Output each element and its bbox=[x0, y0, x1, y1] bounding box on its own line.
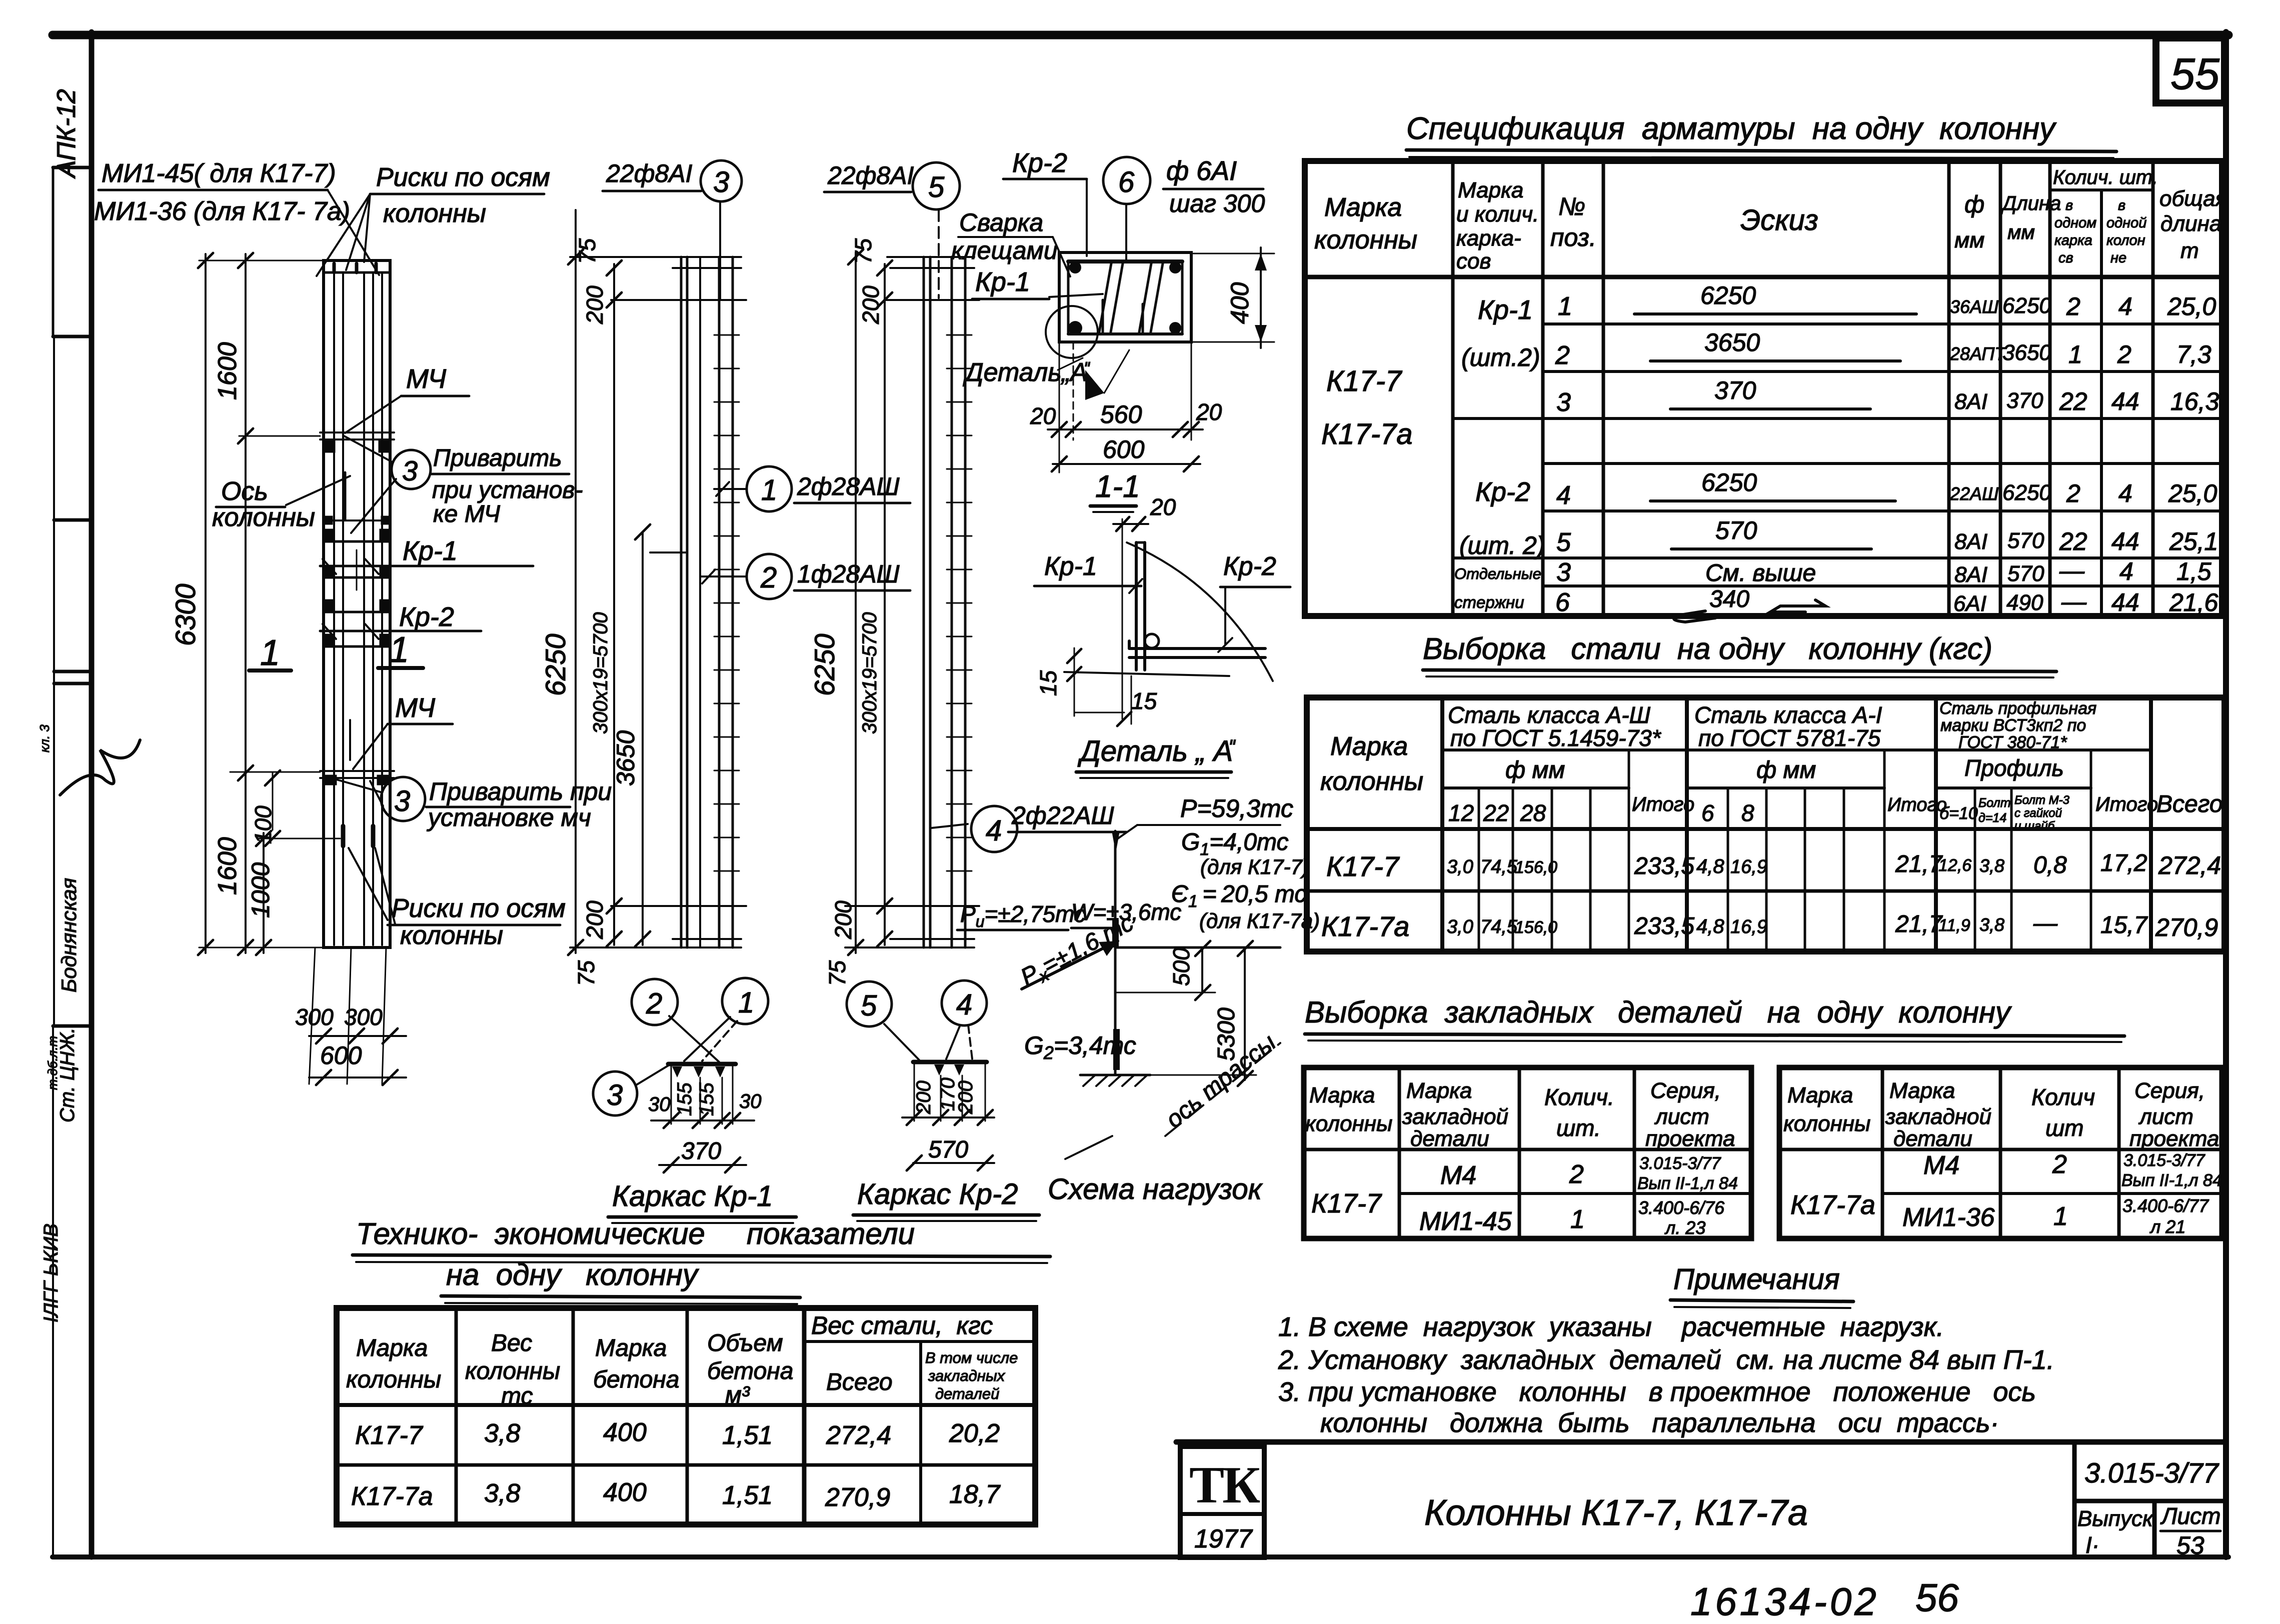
svg-text:Серия,: Серия, bbox=[2134, 1078, 2205, 1103]
svg-text:и шайб: и шайб bbox=[2014, 819, 2055, 833]
svg-text:детали: детали bbox=[1410, 1126, 1489, 1151]
svg-text:АПК-12: АПК-12 bbox=[52, 89, 81, 179]
svg-text:272,4: 272,4 bbox=[2158, 851, 2221, 879]
svg-text:Профиль: Профиль bbox=[1964, 755, 2064, 781]
svg-text:20: 20 bbox=[1030, 403, 1056, 429]
svg-text:Объем: Объем bbox=[707, 1330, 783, 1356]
svg-text:300х19=5700: 300х19=5700 bbox=[590, 612, 612, 734]
svg-text:Сварка: Сварка bbox=[959, 208, 1043, 236]
svg-text:22ф8АΙ: 22ф8АΙ bbox=[606, 159, 693, 187]
svg-text:570: 570 bbox=[928, 1136, 968, 1163]
svg-text:Деталь„А̎: Деталь„А̎ bbox=[963, 358, 1091, 387]
svg-text:Кр-1: Кр-1 bbox=[1478, 295, 1533, 325]
svg-text:лист: лист bbox=[1654, 1104, 1709, 1129]
svg-text:(для К17-7а): (для К17-7а) bbox=[1199, 909, 1320, 932]
svg-text:1,5: 1,5 bbox=[2176, 557, 2211, 585]
svg-text:закладной: закладной bbox=[1885, 1104, 1991, 1129]
svg-text:17,2: 17,2 bbox=[2100, 850, 2147, 876]
svg-text:Серия,: Серия, bbox=[1650, 1078, 1721, 1103]
svg-text:15,7: 15,7 bbox=[2100, 912, 2148, 938]
svg-text:15: 15 bbox=[1131, 688, 1157, 714]
svg-text:15: 15 bbox=[1035, 670, 1061, 696]
svg-text:Каркас Кр-2: Каркас Кр-2 bbox=[857, 1178, 1018, 1210]
svg-text:с гайкой: с гайкой bbox=[2014, 806, 2062, 820]
svg-text:Вып II-1,л 84: Вып II-1,л 84 bbox=[2121, 1171, 2222, 1190]
svg-text:К17-7: К17-7 bbox=[1326, 850, 1400, 882]
svg-text:кл. 3: кл. 3 bbox=[37, 724, 52, 752]
svg-text:1600: 1600 bbox=[213, 837, 242, 895]
svg-text:ІЛГГ ЬКИВ: ІЛГГ ЬКИВ bbox=[40, 1223, 62, 1322]
svg-text:155: 155 bbox=[696, 1082, 718, 1116]
svg-text:155: 155 bbox=[674, 1082, 696, 1116]
svg-text:К17-7а: К17-7а bbox=[351, 1482, 433, 1511]
svg-text:стержни: стержни bbox=[1454, 593, 1524, 611]
svg-text:1: 1 bbox=[738, 986, 754, 1019]
svg-text:Боднянская: Боднянская bbox=[57, 878, 81, 992]
svg-text:(для К17-7): (для К17-7) bbox=[1200, 855, 1309, 878]
svg-text:одной: одной bbox=[2106, 215, 2146, 231]
svg-text:8АI: 8АI bbox=[1954, 389, 1987, 414]
svg-text:3.015-3/77: 3.015-3/77 bbox=[2123, 1151, 2205, 1170]
svg-text:Марка: Марка bbox=[356, 1335, 428, 1361]
svg-text:4,8: 4,8 bbox=[1696, 915, 1724, 937]
svg-text:Спецификация арматуры на одн: Спецификация арматуры на одну колонну bbox=[1406, 111, 2057, 146]
svg-text:л 21: л 21 bbox=[2149, 1216, 2185, 1237]
svg-text:3: 3 bbox=[1556, 558, 1571, 587]
svg-text:5: 5 bbox=[861, 989, 877, 1022]
svg-text:74,5: 74,5 bbox=[1480, 856, 1518, 877]
svg-text:21,6: 21,6 bbox=[2169, 588, 2218, 616]
svg-text:2: 2 bbox=[760, 561, 777, 594]
svg-text:2: 2 bbox=[646, 987, 662, 1020]
svg-text:колонны: колонны bbox=[1320, 767, 1423, 796]
svg-text:л. 23: л. 23 bbox=[1664, 1217, 1705, 1238]
svg-text:600: 600 bbox=[1103, 435, 1145, 463]
svg-text:Болт М-3: Болт М-3 bbox=[2014, 793, 2070, 807]
svg-text:8АI: 8АI bbox=[1954, 562, 1987, 587]
svg-text:200: 200 bbox=[582, 285, 608, 324]
svg-text:200: 200 bbox=[955, 1080, 977, 1114]
svg-text:Кр-2: Кр-2 bbox=[399, 602, 454, 632]
svg-text:(шт. 2): (шт. 2) bbox=[1459, 531, 1545, 559]
svg-text:156,0: 156,0 bbox=[1515, 858, 1557, 877]
svg-text:Итого: Итого bbox=[1632, 793, 1694, 815]
svg-text:400: 400 bbox=[603, 1478, 647, 1507]
svg-text:Каркас Кр-1: Каркас Кр-1 bbox=[612, 1180, 773, 1212]
svg-text:Марка: Марка bbox=[1458, 178, 1523, 202]
svg-text:Риски по осям: Риски по осям bbox=[392, 894, 566, 923]
svg-text:1: 1 bbox=[2053, 1202, 2068, 1231]
svg-text:по ГОСТ 5781-75: по ГОСТ 5781-75 bbox=[1698, 725, 1881, 751]
svg-text:ф мм: ф мм bbox=[1505, 757, 1565, 783]
svg-text:шт: шт bbox=[2045, 1115, 2084, 1141]
svg-text:и колич.: и колич. bbox=[1456, 202, 1539, 226]
svg-text:д=14: д=14 bbox=[1978, 811, 2006, 825]
svg-text:карка: карка bbox=[2054, 232, 2092, 248]
svg-text:370: 370 bbox=[2006, 388, 2043, 413]
svg-text:проекта: проекта bbox=[1645, 1126, 1735, 1151]
svg-text:500: 500 bbox=[1168, 947, 1194, 986]
svg-text:8АI: 8АI bbox=[1954, 529, 1987, 554]
svg-text:21,7: 21,7 bbox=[1895, 911, 1943, 937]
svg-text:1,51: 1,51 bbox=[722, 1421, 773, 1450]
svg-text:деталей: деталей bbox=[935, 1385, 999, 1402]
svg-text:270,9: 270,9 bbox=[825, 1483, 890, 1512]
svg-text:№: № bbox=[1558, 192, 1585, 220]
svg-text:В том числе: В том числе bbox=[925, 1349, 1018, 1366]
svg-text:лист: лист bbox=[2138, 1104, 2193, 1129]
svg-text:44: 44 bbox=[2111, 527, 2139, 555]
svg-text:колонны: колонны bbox=[400, 921, 503, 950]
svg-text:1977: 1977 bbox=[1194, 1524, 1253, 1553]
svg-text:6250: 6250 bbox=[540, 633, 571, 696]
svg-text:колонны: колонны bbox=[383, 199, 486, 228]
svg-text:1: 1 bbox=[389, 630, 409, 670]
svg-text:25,0: 25,0 bbox=[2167, 292, 2216, 320]
svg-text:22: 22 bbox=[2059, 387, 2087, 415]
svg-text:5: 5 bbox=[928, 171, 945, 203]
svg-text:4: 4 bbox=[1556, 481, 1571, 510]
svg-text:св: св bbox=[2058, 250, 2073, 266]
svg-text:3,8: 3,8 bbox=[484, 1419, 520, 1448]
svg-text:проекта: проекта bbox=[2129, 1126, 2219, 1151]
svg-text:G1=4,0тс: G1=4,0тс bbox=[1181, 829, 1288, 859]
svg-text:340: 340 bbox=[1709, 586, 1749, 612]
svg-text:36АШ: 36АШ bbox=[1950, 296, 1999, 317]
svg-text:3: 3 bbox=[713, 166, 729, 198]
svg-text:1-1: 1-1 bbox=[1095, 469, 1140, 504]
svg-text:по ГОСТ 5.1459-73*: по ГОСТ 5.1459-73* bbox=[1450, 725, 1662, 751]
svg-text:установке мч: установке мч bbox=[427, 803, 591, 831]
svg-text:См. выше: См. выше bbox=[1705, 560, 1816, 586]
svg-text:ТК: ТК bbox=[1189, 1455, 1260, 1514]
svg-text:т.дб.л.т: т.дб.л.т bbox=[45, 1036, 60, 1090]
svg-text:3650: 3650 bbox=[612, 730, 640, 786]
svg-text:75: 75 bbox=[824, 960, 850, 986]
svg-text:в: в bbox=[2118, 197, 2125, 213]
svg-text:МИ1-36: МИ1-36 bbox=[1902, 1203, 1995, 1232]
svg-text:16134-02: 16134-02 bbox=[1690, 1579, 1879, 1623]
svg-text:4: 4 bbox=[2119, 557, 2133, 585]
svg-text:К17-7а: К17-7а bbox=[1790, 1190, 1875, 1220]
svg-text:6: 6 bbox=[1118, 166, 1135, 198]
svg-text:3. при установке колонны в: 3. при установке колонны в проектное пол… bbox=[1278, 1377, 2036, 1407]
svg-text:1600: 1600 bbox=[213, 342, 242, 400]
svg-text:12,6: 12,6 bbox=[1938, 856, 1971, 875]
svg-text:Сталь профильная: Сталь профильная bbox=[1939, 699, 2096, 718]
svg-text:Марка: Марка bbox=[1309, 1083, 1375, 1107]
svg-text:44: 44 bbox=[2111, 387, 2139, 415]
svg-text:44: 44 bbox=[2111, 588, 2139, 616]
svg-text:16,9: 16,9 bbox=[1730, 856, 1767, 877]
svg-text:детали: детали bbox=[1893, 1126, 1972, 1151]
svg-text:1: 1 bbox=[1558, 292, 1572, 321]
svg-text:Вес стали, кгс: Вес стали, кгс bbox=[811, 1311, 993, 1339]
svg-text:370: 370 bbox=[681, 1138, 721, 1164]
svg-text:53: 53 bbox=[2176, 1531, 2204, 1559]
svg-text:Примечания: Примечания bbox=[1673, 1263, 1840, 1295]
svg-text:370: 370 bbox=[1714, 376, 1756, 404]
svg-text:Деталь „ А̎: Деталь „ А̎ bbox=[1077, 735, 1236, 767]
svg-text:Колич: Колич bbox=[2031, 1084, 2095, 1110]
svg-text:200: 200 bbox=[858, 285, 884, 324]
svg-text:3: 3 bbox=[402, 455, 418, 486]
svg-text:6250: 6250 bbox=[809, 633, 840, 696]
svg-text:Всего: Всего bbox=[826, 1369, 893, 1395]
svg-text:—: — bbox=[2033, 910, 2058, 936]
svg-text:Марка: Марка bbox=[1787, 1083, 1853, 1107]
svg-text:Колич. шт.: Колич. шт. bbox=[2053, 166, 2158, 188]
svg-text:200: 200 bbox=[830, 900, 856, 939]
svg-text:490: 490 bbox=[2006, 590, 2043, 615]
svg-text:2. Установку закладных детал: 2. Установку закладных деталей см. на ли… bbox=[1278, 1345, 2054, 1375]
svg-text:600: 600 bbox=[320, 1041, 362, 1069]
svg-text:22ф8АΙ: 22ф8АΙ bbox=[827, 161, 914, 189]
svg-text:3.015-3/77: 3.015-3/77 bbox=[2084, 1457, 2219, 1488]
svg-text:6300: 6300 bbox=[170, 583, 201, 646]
svg-text:25,0: 25,0 bbox=[2168, 479, 2217, 507]
svg-text:Марка: Марка bbox=[1330, 732, 1408, 761]
svg-text:1. В схеме нагрузок указаны: 1. В схеме нагрузок указаны расчетные на… bbox=[1278, 1312, 1944, 1342]
svg-text:Приварить: Приварить bbox=[433, 445, 562, 471]
svg-text:ф: ф bbox=[1964, 191, 1984, 218]
svg-text:одном: одном bbox=[2054, 215, 2096, 231]
svg-text:560: 560 bbox=[1100, 400, 1142, 428]
svg-text:ГОСТ 380-71*: ГОСТ 380-71* bbox=[1958, 733, 2067, 752]
svg-text:233,5: 233,5 bbox=[1634, 913, 1694, 939]
svg-text:20,2: 20,2 bbox=[949, 1419, 1000, 1448]
svg-text:марки ВСТ3кп2 по: марки ВСТ3кп2 по bbox=[1940, 716, 2086, 735]
svg-text:75: 75 bbox=[574, 238, 600, 264]
svg-text:на одну колонну: на одну колонну bbox=[446, 1258, 700, 1291]
svg-text:Кр-2: Кр-2 bbox=[1223, 552, 1276, 581]
svg-text:закладной: закладной bbox=[1402, 1104, 1508, 1129]
svg-text:К17-7: К17-7 bbox=[1311, 1188, 1382, 1218]
svg-text:272,4: 272,4 bbox=[826, 1421, 891, 1450]
svg-text:Марка: Марка bbox=[595, 1335, 667, 1361]
svg-text:6250: 6250 bbox=[2002, 293, 2051, 318]
svg-text:не: не bbox=[2110, 250, 2126, 266]
svg-text:4,8: 4,8 bbox=[1696, 855, 1724, 877]
svg-text:16,9: 16,9 bbox=[1730, 916, 1767, 937]
svg-text:Колич.: Колич. bbox=[1544, 1084, 1614, 1110]
svg-text:6АI: 6АI bbox=[1953, 591, 1986, 616]
svg-text:570: 570 bbox=[2007, 528, 2044, 553]
svg-text:11,9: 11,9 bbox=[1938, 916, 1970, 935]
svg-text:2: 2 bbox=[2066, 292, 2080, 320]
svg-text:22: 22 bbox=[1483, 800, 1509, 826]
svg-text:Длина: Длина bbox=[2000, 192, 2061, 214]
svg-text:МИ1-45: МИ1-45 bbox=[1419, 1207, 1512, 1236]
svg-text:Кр-2: Кр-2 bbox=[1475, 477, 1530, 507]
svg-text:21,7: 21,7 bbox=[1895, 851, 1943, 877]
svg-text:6: 6 bbox=[1555, 588, 1570, 617]
svg-text:200: 200 bbox=[913, 1080, 935, 1114]
svg-text:Марка: Марка bbox=[1889, 1078, 1955, 1103]
svg-text:тс: тс bbox=[501, 1383, 533, 1409]
svg-text:570: 570 bbox=[1715, 516, 1757, 544]
svg-text:30: 30 bbox=[739, 1090, 762, 1112]
svg-text:Кр-2: Кр-2 bbox=[1012, 148, 1067, 178]
svg-text:4: 4 bbox=[986, 814, 1002, 847]
svg-text:6: 6 bbox=[1701, 800, 1714, 826]
svg-text:2: 2 bbox=[2117, 340, 2131, 368]
svg-text:Всего: Всего bbox=[2156, 791, 2223, 817]
svg-text:1: 1 bbox=[1570, 1205, 1585, 1234]
svg-text:Выборка стали на одну кол: Выборка стали на одну колонну (кгс) bbox=[1423, 632, 1992, 665]
svg-text:30: 30 bbox=[648, 1093, 671, 1115]
svg-text:1: 1 bbox=[260, 633, 280, 673]
svg-text:Сталь класса А-Ι: Сталь класса А-Ι bbox=[1694, 702, 1882, 728]
svg-text:2ф22АШ: 2ф22АШ bbox=[1011, 801, 1115, 829]
svg-text:6250: 6250 bbox=[1701, 468, 1757, 496]
svg-text:300: 300 bbox=[344, 1004, 383, 1030]
svg-text:Кр-1: Кр-1 bbox=[403, 536, 458, 566]
svg-text:шаг 300: шаг 300 bbox=[1169, 189, 1265, 217]
svg-text:К17-7: К17-7 bbox=[1326, 365, 1403, 397]
svg-text:3: 3 bbox=[394, 785, 410, 817]
svg-text:шт.: шт. bbox=[1556, 1115, 1601, 1141]
svg-text:колонны: колонны bbox=[346, 1366, 441, 1393]
svg-text:Вес: Вес bbox=[491, 1330, 532, 1356]
svg-text:колонны: колонны bbox=[465, 1358, 560, 1384]
svg-text:6250: 6250 bbox=[2002, 480, 2051, 505]
svg-text:270,9: 270,9 bbox=[2155, 913, 2218, 941]
svg-text:m: m bbox=[2180, 238, 2199, 263]
svg-text:длина: длина bbox=[2160, 211, 2221, 236]
svg-text:Сталь класса А-Ш: Сталь класса А-Ш bbox=[1448, 702, 1651, 728]
svg-text:22: 22 bbox=[2059, 527, 2087, 555]
svg-text:колонны: колонны bbox=[212, 503, 315, 532]
svg-text:Вып II-1,л 84: Вып II-1,л 84 bbox=[1637, 1174, 1738, 1193]
svg-text:колонны: колонны bbox=[1314, 225, 1417, 254]
svg-text:18,7: 18,7 bbox=[949, 1480, 1001, 1509]
svg-text:56: 56 bbox=[1915, 1575, 1959, 1619]
svg-text:Кр-1: Кр-1 bbox=[1044, 552, 1097, 581]
svg-text:4: 4 bbox=[956, 988, 972, 1021]
svg-text:16,3: 16,3 bbox=[2170, 387, 2219, 415]
svg-text:20: 20 bbox=[1150, 494, 1176, 520]
svg-text:55: 55 bbox=[2170, 49, 2220, 98]
svg-text:2: 2 bbox=[1555, 341, 1570, 370]
svg-text:МЧ: МЧ bbox=[395, 693, 436, 723]
svg-text:МЧ: МЧ bbox=[406, 364, 447, 394]
svg-text:Болт: Болт bbox=[1978, 796, 2011, 810]
svg-text:12: 12 bbox=[1448, 800, 1474, 826]
svg-text:2: 2 bbox=[2066, 479, 2080, 507]
svg-text:Лист: Лист bbox=[2160, 1503, 2220, 1529]
svg-text:0,8: 0,8 bbox=[2033, 852, 2067, 878]
svg-text:МИ1-36 (для К17- 7а): МИ1-36 (для К17- 7а) bbox=[94, 197, 350, 226]
svg-text:Итого: Итого bbox=[1887, 794, 1947, 815]
svg-text:сов: сов bbox=[1456, 249, 1491, 273]
svg-text:—: — bbox=[2061, 587, 2087, 615]
svg-text:3: 3 bbox=[607, 1079, 623, 1111]
svg-text:Марка: Марка bbox=[1406, 1078, 1472, 1103]
svg-text:22АШ: 22АШ bbox=[1949, 483, 1999, 504]
svg-text:колонны: колонны bbox=[1305, 1111, 1392, 1136]
svg-text:3,8: 3,8 bbox=[1979, 914, 2004, 935]
svg-text:—: — bbox=[2059, 556, 2085, 584]
svg-text:ф 6АΙ: ф 6АΙ bbox=[1166, 156, 1237, 186]
svg-text:Итого: Итого bbox=[2095, 793, 2158, 815]
svg-text:при установ-: при установ- bbox=[432, 477, 583, 503]
svg-text:3.400-6/76: 3.400-6/76 bbox=[1638, 1197, 1725, 1218]
svg-text:поз.: поз. bbox=[1550, 223, 1596, 251]
svg-text:2: 2 bbox=[1569, 1160, 1584, 1189]
svg-text:карка-: карка- bbox=[1456, 226, 1521, 250]
svg-text:3.400-6/77: 3.400-6/77 bbox=[2122, 1195, 2209, 1216]
svg-text:1,51: 1,51 bbox=[722, 1481, 773, 1510]
svg-text:К17-7: К17-7 bbox=[355, 1421, 424, 1450]
svg-text:Приварить при: Приварить при bbox=[429, 777, 612, 805]
svg-text:в: в bbox=[2065, 197, 2073, 213]
svg-text:1000: 1000 bbox=[247, 862, 275, 918]
svg-text:7,3: 7,3 bbox=[2176, 340, 2211, 368]
svg-text:б=10: б=10 bbox=[1939, 804, 1978, 823]
svg-text:(шт.2): (шт.2) bbox=[1461, 343, 1540, 371]
svg-text:Колонны К17-7, К17-7а: Колонны К17-7, К17-7а bbox=[1424, 1493, 1808, 1533]
svg-text:Эскиз: Эскиз bbox=[1740, 204, 1818, 236]
svg-text:мм: мм bbox=[2007, 221, 2035, 243]
svg-text:Марка: Марка bbox=[1324, 193, 1402, 222]
svg-text:колонны: колонны bbox=[1783, 1111, 1870, 1136]
svg-text:400: 400 bbox=[603, 1418, 647, 1447]
svg-text:ф мм: ф мм bbox=[1756, 757, 1816, 783]
svg-text:3.015-3/77: 3.015-3/77 bbox=[1639, 1154, 1721, 1173]
svg-text:МИ1-45( для К17-7): МИ1-45( для К17-7) bbox=[102, 159, 336, 188]
svg-text:общая: общая bbox=[2159, 186, 2227, 211]
svg-text:74,5: 74,5 bbox=[1480, 916, 1518, 937]
svg-text:3,8: 3,8 bbox=[1979, 855, 2004, 876]
svg-text:100: 100 bbox=[250, 805, 276, 844]
svg-text:156,0: 156,0 bbox=[1515, 918, 1557, 937]
svg-text:бетона: бетона bbox=[593, 1366, 679, 1393]
svg-text:4: 4 bbox=[2118, 292, 2132, 320]
svg-text:2: 2 bbox=[2052, 1150, 2067, 1179]
svg-text:Схема нагрузок: Схема нагрузок bbox=[1048, 1173, 1263, 1205]
svg-text:20: 20 bbox=[1196, 399, 1222, 425]
svg-text:1: 1 bbox=[2068, 340, 2082, 368]
svg-text:300: 300 bbox=[295, 1004, 334, 1030]
svg-text:400: 400 bbox=[1226, 282, 1254, 324]
svg-text:570: 570 bbox=[2007, 561, 2044, 586]
svg-text:мм: мм bbox=[1954, 228, 1984, 252]
svg-text:закладных: закладных bbox=[928, 1367, 1006, 1384]
svg-text:5: 5 bbox=[1556, 528, 1571, 557]
svg-text:3650: 3650 bbox=[2002, 340, 2051, 365]
svg-text:ке МЧ: ке МЧ bbox=[433, 501, 501, 527]
svg-text:P=59,3тс: P=59,3тс bbox=[1180, 794, 1293, 822]
svg-text:Кр-1: Кр-1 bbox=[975, 267, 1030, 297]
svg-text:М4: М4 bbox=[1440, 1161, 1476, 1190]
svg-text:М4: М4 bbox=[1923, 1151, 1959, 1180]
svg-text:К17-7а: К17-7а bbox=[1321, 910, 1409, 942]
svg-text:Ось: Ось bbox=[221, 477, 268, 506]
svg-text:25,1: 25,1 bbox=[2169, 527, 2218, 555]
svg-text:Выпуск: Выпуск bbox=[2077, 1506, 2154, 1531]
svg-text:3,0: 3,0 bbox=[1447, 916, 1473, 937]
svg-text:28: 28 bbox=[1520, 800, 1546, 826]
svg-text:28АПТ: 28АПТ bbox=[1949, 343, 2007, 364]
svg-text:3,0: 3,0 bbox=[1447, 856, 1473, 877]
svg-text:Риски по осям: Риски по осям bbox=[376, 163, 550, 192]
svg-text:1: 1 bbox=[761, 474, 777, 506]
svg-text:8: 8 bbox=[1741, 800, 1754, 826]
svg-text:м³: м³ bbox=[725, 1382, 751, 1408]
svg-text:Отдельные: Отдельные bbox=[1454, 565, 1541, 582]
svg-text:200: 200 bbox=[582, 900, 608, 939]
